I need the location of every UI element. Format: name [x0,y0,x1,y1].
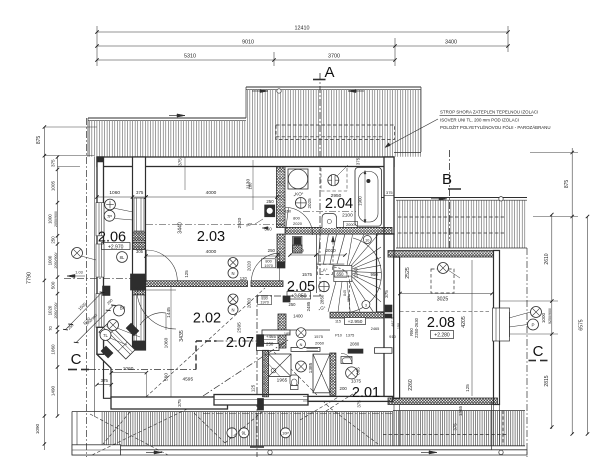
svg-text:2815: 2815 [544,375,550,386]
top dimension line 12410 [97,31,508,33]
svg-text:R90: R90 [409,327,414,335]
2.08 window right wall [493,308,510,341]
svg-text:3: 3 [365,303,367,307]
2.03 dim line 4000 top [146,196,277,198]
svg-text:+2.950: +2.950 [348,319,363,325]
black wall piece near 2.07 [257,335,264,347]
svg-text:2050/700/: 2050/700/ [54,303,58,319]
2.08 walls into terrace [393,405,395,446]
svg-text:125: 125 [184,270,189,278]
left dim chain outer [43,127,45,450]
door size label 800/2020 [258,296,272,305]
svg-text:9250/900/: 9250/900/ [548,308,552,324]
svg-text:7P: 7P [107,214,112,219]
svg-text:2360: 2360 [354,267,359,278]
svg-text:3435: 3435 [179,330,185,342]
terrace circle mark left [268,450,272,454]
stair bottom wall crosshatch [330,312,384,318]
svg-text:8L: 8L [120,255,125,260]
circle 8L [117,252,128,263]
svg-text:4205: 4205 [461,316,467,328]
right dim chain mid [571,148,573,434]
roof vent circle top [277,89,281,93]
svg-text:4000: 4000 [206,190,217,196]
bottom wall lower middle [214,395,308,406]
roof hatch top-right [246,86,421,88]
2.02 bottom dims [111,372,146,374]
svg-text:2050/900/: 2050/900/ [54,253,58,269]
svg-text:250: 250 [266,199,274,204]
svg-text:+465: +465 [266,334,276,339]
svg-text:1060: 1060 [123,366,134,372]
svg-text:2020: 2020 [293,221,303,226]
svg-text:250: 250 [51,236,56,244]
wall below bathroom left [277,234,285,262]
2.02 dashed diagonals [146,288,265,397]
right wall lower [384,234,394,396]
svg-text:1000: 1000 [48,214,53,224]
svg-text:250: 250 [289,302,297,307]
svg-text:1385: 1385 [308,362,314,373]
svg-text:6575: 6575 [579,319,585,330]
diagonal dim chain outer [66,292,103,329]
window left wall 3 [96,294,104,328]
svg-text:4595: 4595 [182,377,193,383]
svg-text:180: 180 [248,182,253,190]
washbasin circle 2.01 [346,367,358,379]
interior wall black block lower [133,341,146,350]
washbasin circle 2.04 [295,198,306,209]
svg-text:B: B [442,171,452,188]
svg-text:150: 150 [285,210,291,214]
svg-text:2850: 2850 [320,294,325,304]
2.08 bottom wall crosshatch [388,398,498,405]
svg-text:1575: 1575 [302,272,313,277]
circle BP [114,305,125,316]
svg-text:3440: 3440 [178,222,184,234]
2.08 top wall crosshatch [388,251,498,258]
left wall lower segment [97,327,104,354]
stair outer arc [351,238,381,312]
svg-text:875: 875 [36,136,42,145]
stair center rect [334,266,352,282]
svg-text:800: 800 [265,260,271,264]
svg-text:1.03: 1.03 [75,271,82,275]
terrace hatch bottom-left [72,411,393,413]
svg-text:1005: 1005 [51,180,56,191]
svg-text:BP: BP [120,306,126,311]
diagonal door jamb black upper [126,323,139,336]
svg-text:2950: 2950 [331,193,342,199]
terrace arrow [429,451,437,454]
svg-text:2020: 2020 [246,260,251,271]
horizontal dash-dot reference line [64,277,146,279]
svg-text:2520: 2520 [237,217,243,228]
svg-text:ISOVER UNI TL. 200 mm POD IZOL: ISOVER UNI TL. 200 mm POD IZOLACI [440,118,519,123]
svg-text:685: 685 [356,367,361,375]
svg-text:150: 150 [397,323,401,329]
entrance door arc [140,313,166,325]
svg-text:2.08: 2.08 [427,315,455,331]
section line B [449,150,451,250]
wc top wall left [257,344,280,351]
stair walk line [349,282,351,318]
terrace door sill 2.01 [303,396,337,398]
interior wall 2.06-2.03 [133,157,146,350]
roof arrow right wing [439,197,447,200]
roof arrow top-right west [260,89,268,92]
section line C right vertical [526,248,528,457]
svg-text:2030: 2030 [325,248,336,253]
2.03 dim 1130 rot [252,160,254,210]
interior wall lower window [134,295,144,341]
2.06 level box [102,243,131,250]
circle column 2.05 [319,281,329,291]
svg-text:1375: 1375 [346,334,354,338]
top dimension line 9010 3400 [97,45,508,47]
svg-text:2.06: 2.06 [98,230,126,246]
terrace circle mark [499,450,503,454]
2.04 door label 2000 [343,221,357,227]
svg-text:STROP SHORA ZATEPLEN TEPELNOU: STROP SHORA ZATEPLEN TEPELNOU IZOLACI [440,110,538,115]
stair winder fan [346,235,353,272]
toilet 2.04 [328,175,339,186]
diagonal door band [99,323,135,359]
svg-text:487.5: 487.5 [391,317,395,327]
svg-text:2.03: 2.03 [197,229,225,245]
circle cross entrance [108,320,119,331]
svg-text:375: 375 [384,290,389,298]
shaft X-box 2.01 [313,354,330,393]
facade line left [94,157,96,417]
svg-text:1970: 1970 [260,301,268,305]
2.08 skylight dashed box [431,269,454,293]
top dimension line 5310 3700 [97,59,395,61]
svg-text:2485: 2485 [306,301,311,311]
right dim chain inner [551,215,553,430]
svg-text:3400: 3400 [445,40,457,46]
2.08 ceiling circle marker [438,263,449,274]
bottom wall threshold block [258,399,264,411]
svg-text:C: C [533,343,544,360]
diagonal door jamb black lower [101,346,113,358]
dashed chimney outline in roof [276,125,395,140]
2.01 top wall right [375,348,393,354]
svg-text:2595: 2595 [236,322,242,333]
2.08 dim 4205 rot [471,260,473,396]
svg-text:375: 375 [356,157,361,165]
svg-text:5310: 5310 [184,54,196,60]
svg-text:305: 305 [136,249,144,254]
left wall arrow 1.03 [67,275,85,277]
svg-text:2260: 2260 [408,379,414,391]
terrace dashed diagonals left [92,396,214,455]
roof arrow top-right east [348,89,356,92]
svg-text:2050/900/: 2050/900/ [54,211,58,227]
svg-text:+2.970: +2.970 [108,244,124,250]
svg-text:1060: 1060 [109,190,120,196]
svg-text:1400: 1400 [293,314,303,319]
2.06 dim line 1060 375 [97,196,146,198]
svg-text:4000: 4000 [206,249,217,255]
svg-text:1060: 1060 [51,344,56,355]
2.08 dim 3025 [400,293,492,295]
svg-text:845: 845 [343,290,347,296]
svg-text:910: 910 [389,334,396,339]
svg-text:7L: 7L [103,333,108,338]
svg-text:2000: 2000 [346,223,354,227]
svg-text:2100: 2100 [342,213,353,219]
left wall niche block [103,286,111,296]
2.01 sliding door black bar [348,349,363,353]
svg-text:2.07: 2.07 [226,335,254,351]
2.06 circle markers [105,199,116,210]
pillar at 2.05 corner [293,236,302,253]
roof hatch top-left [88,117,246,119]
terrace step bottom-left [72,445,121,455]
door size label 800/1970 [262,259,276,268]
bottom wall 2.01 [308,396,393,401]
section line A [319,73,321,296]
svg-text:10P: 10P [282,432,289,436]
section line C jog path [89,369,196,371]
svg-text:850: 850 [347,296,351,302]
svg-text:1000: 1000 [541,312,546,323]
terrace dashed roof projection [383,434,507,436]
svg-text:1970: 1970 [264,264,272,268]
chimney symbol K [265,205,275,217]
svg-text:2610: 2610 [544,253,550,264]
svg-text:1575: 1575 [314,334,324,339]
svg-text:2025: 2025 [307,198,312,209]
2.03 dim line 4000 bottom [146,255,277,257]
washing machine KO square [288,169,308,189]
roof arrow top-left band [177,114,185,117]
circles above 2.01 [297,340,306,349]
right wall window blocks [385,305,392,312]
svg-text:2525: 2525 [405,267,411,279]
stair side wall right [377,234,385,312]
2.08 window leader circles [531,307,542,318]
wc top wall right [291,347,320,351]
2.08 left wall [394,257,400,398]
svg-text:+2.280: +2.280 [434,333,450,339]
terrace arrow left [154,451,162,454]
svg-text:1375: 1375 [351,379,362,384]
dashed zone box toilet [320,168,322,191]
roof vent circle right wing [499,197,503,201]
svg-text:2080: 2080 [350,342,360,347]
left dim chain inner [57,156,59,416]
svg-text:N: N [231,271,234,276]
bottom wall 2.02 [111,397,228,409]
svg-text:P10: P10 [335,334,342,338]
svg-text:375: 375 [357,400,362,408]
svg-text:800: 800 [293,216,300,221]
sink 2.04 [322,214,337,229]
svg-text:POLOŽIT POLYETYLÉNOVOU FÓLII -: POLOŽIT POLYETYLÉNOVOU FÓLII - PAROZÁBRA… [440,125,551,130]
svg-text:1490: 1490 [51,385,56,396]
svg-text:P: P [531,323,534,328]
svg-text:375: 375 [452,423,457,431]
svg-text:875: 875 [564,180,570,189]
svg-text:1090: 1090 [35,423,40,434]
svg-text:250: 250 [268,248,276,253]
svg-text:3700: 3700 [328,54,340,60]
eave dash-dot line left [86,118,88,457]
left exterior wall [97,157,104,354]
toilet 2.07 [290,375,299,386]
wall between 2.07 and 2.05 crosshatch [278,314,286,348]
corner block top-left [97,157,103,162]
svg-text:70: 70 [48,326,53,331]
top exterior wall [97,157,394,167]
shaft window interior wall [134,198,144,231]
dashed eave lines right wing [398,216,506,218]
svg-text:N: N [300,343,303,347]
2.08 dashed line interior [400,311,490,313]
washer U 2.01 [341,357,352,364]
svg-text:1020: 1020 [48,305,53,315]
door arc into 2.05 corridor [251,253,279,281]
svg-text:950: 950 [371,272,379,277]
svg-text:375: 375 [177,399,182,407]
svg-text:3025: 3025 [437,297,449,303]
svg-text:185: 185 [284,332,290,336]
bathtub dim 1900 [364,171,366,224]
svg-text:375: 375 [101,378,109,383]
svg-text:10: 10 [365,238,369,242]
window left wall 1 [96,203,104,236]
terrace dashed diagonals right [262,340,330,408]
leader lines entrance circles [117,328,140,337]
2.08 level box [431,331,454,339]
bathtub 2.04 [355,168,381,227]
svg-text:650: 650 [337,272,345,277]
terrace hatch bottom-right [393,410,525,412]
svg-text:1060: 1060 [164,337,170,348]
top dimension extension lines [96,26,98,66]
circles near stair left [296,328,306,338]
door arc 2.04 [285,207,313,235]
washbasin circle wc [296,361,307,372]
2.08 right wall [494,251,500,405]
roof hatch right wing [381,197,527,199]
axis dash-dot line 2.03 [146,224,283,226]
svg-text:2.02: 2.02 [193,311,221,327]
svg-text:200: 200 [340,386,348,391]
svg-text:2060: 2060 [315,341,325,346]
2.01 door arc small [341,353,352,364]
circle 7L [100,330,111,341]
left chain connector lines [44,126,97,128]
svg-text:9010: 9010 [242,40,254,46]
svg-text:2250-2630: 2250-2630 [414,317,419,338]
stair bottom treads [328,282,336,312]
svg-text:125: 125 [251,384,256,392]
chamfer corner wall [97,354,111,398]
terrace edge lines [101,445,525,447]
terrace circles [227,428,237,438]
shower 2.07 [269,354,292,377]
wall 2.05 left black corners [277,262,285,268]
svg-text:+2.850: +2.850 [291,294,307,300]
svg-text:„A“: „A“ [321,268,328,273]
bathroom bottom wall crosshatch [285,227,392,234]
diagonal dash-dot reference [203,340,288,396]
stair walk circles [363,236,371,244]
note leader line [385,119,438,148]
svg-text:375: 375 [136,190,144,195]
level box +2.950 below stairs [345,318,366,325]
window circle marker left [72,248,83,259]
svg-text:500: 500 [51,281,56,289]
svg-text:1900: 1900 [358,196,363,206]
svg-text:375: 375 [178,158,183,166]
right exterior wall [384,157,394,234]
2.05 level box [287,292,311,300]
svg-text:250: 250 [266,342,274,347]
diagonal dim chain inner [76,305,113,342]
svg-text:A: A [324,64,334,81]
wall 2.07wc/2.01 crosshatch [330,353,336,395]
eave dashdot projection bottom [203,413,392,415]
svg-text:375: 375 [51,159,56,167]
stair left boundary [316,235,318,294]
circles at wall 2.03 bottom pair 2 [228,294,238,304]
svg-text:1000: 1000 [48,255,53,265]
stair top treads [318,235,320,265]
svg-text:C: C [71,351,82,368]
circles at wall 2.03 bottom pair 1 [228,258,238,268]
door arc into 2.02 [137,290,176,329]
svg-text:2.01: 2.01 [352,385,380,401]
svg-text:115: 115 [335,320,341,324]
svg-text:830: 830 [261,296,267,300]
lower rooms top wall [262,329,330,331]
door sill wc-2.05 [307,348,319,350]
svg-text:„G“: „G“ [319,306,326,311]
svg-text:1365: 1365 [458,405,463,416]
svg-text:1965: 1965 [277,378,288,384]
svg-text:„KO“: „KO“ [294,192,304,197]
svg-text:N: N [231,308,234,313]
wall 2.03/2.02 crosshatch [146,281,248,287]
svg-text:7790: 7790 [27,272,33,284]
svg-text:2465: 2465 [371,327,379,331]
interior wall black corner [131,274,146,290]
svg-text:125: 125 [465,384,470,392]
svg-text:9L: 9L [242,431,247,436]
bathroom axis dashdot [303,211,356,213]
wall 2.03/2.04 crosshatch [277,167,286,228]
dashed diagonal 2.01 [326,392,356,411]
wc left wall crosshatch [263,350,269,397]
svg-text:12410: 12410 [295,26,310,32]
svg-text:375: 375 [386,190,393,195]
label A dashed box [317,264,332,274]
right dim chain outer [587,217,589,435]
door arc into 2.03 left [146,250,177,281]
svg-text:120: 120 [240,276,248,281]
window left wall 2 [96,244,104,277]
